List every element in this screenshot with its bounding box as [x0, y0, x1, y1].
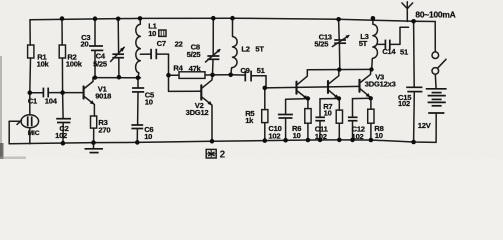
bottom-left scan blob [0, 143, 4, 159]
svg-text:2: 2 [220, 150, 226, 159]
svg-text:C9: C9 [240, 66, 249, 75]
svg-text:9018: 9018 [95, 92, 111, 101]
svg-text:80~100mA: 80~100mA [415, 10, 455, 20]
label: turns glyph for L1 [159, 30, 166, 36]
svg-text:12V: 12V [418, 121, 432, 130]
wire: V1 collector node [93, 77, 141, 79]
node: rail/V2 emitter [210, 139, 215, 144]
node: rail/R6 [306, 138, 311, 143]
svg-text:C14: C14 [382, 47, 396, 56]
node: rail/C15 [411, 140, 416, 145]
capacitor C3 [81, 19, 104, 78]
node: V3 collectors/L3 [369, 67, 373, 71]
node: C9/R5/V3 base [263, 86, 268, 91]
node: C1/R2/C2/V1 base [60, 90, 65, 95]
wire: R1 column lower lead [29, 58, 32, 93]
wire: V2 base drop [169, 75, 202, 91]
svg-text:C7: C7 [157, 39, 166, 48]
wire: ground bottom rail [9, 140, 436, 144]
wire: R1 column upper lead [29, 20, 31, 45]
svg-text:10: 10 [324, 108, 332, 117]
node: collector/C4 [117, 75, 122, 80]
node: collector/L1/C5 [136, 76, 141, 81]
capacitor C14 [378, 27, 409, 56]
transistor V3a [297, 70, 308, 100]
node: C7/R4/V2 base [166, 73, 171, 78]
node: L2/C9 [228, 73, 233, 78]
inductor L1 10 turns [136, 18, 158, 77]
capacitor C7 [140, 39, 182, 59]
svg-text:5/25: 5/25 [187, 50, 202, 59]
wire: C9 down to V3 base bus [265, 76, 267, 88]
node: rail/C13 [336, 17, 341, 22]
resistor R7 [323, 99, 342, 140]
svg-text:47k: 47k [189, 64, 202, 73]
svg-text:51: 51 [400, 47, 409, 56]
node: rail/C10 [283, 138, 288, 143]
paper background [0, 0, 503, 159]
capacitor C10 [268, 99, 293, 140]
variable capacitor C13 [314, 19, 349, 69]
resistor R8 [368, 98, 384, 140]
svg-text:1k: 1k [245, 116, 254, 125]
inductor L2 5T [231, 18, 265, 75]
svg-text:20: 20 [81, 40, 89, 49]
svg-text:5T: 5T [359, 39, 368, 48]
transistor V1 9018 [84, 78, 112, 116]
node: rail/R2 [60, 16, 65, 21]
svg-text:104: 104 [45, 97, 58, 106]
wire: emitter node a [286, 98, 308, 101]
resistor R3 [91, 116, 111, 143]
wire: R4 node to L2 node [213, 74, 231, 76]
wire: emitter node b [320, 98, 339, 100]
node: rail/C4 [116, 17, 121, 22]
node: rail/L1 [138, 16, 143, 21]
switch S [432, 22, 446, 89]
node: rail/C2 [61, 141, 66, 146]
svg-text:3DG12: 3DG12 [186, 108, 209, 117]
node: rail/C6 [135, 140, 140, 145]
transistor V2 3DG12 [186, 75, 213, 141]
svg-text:270: 270 [98, 125, 110, 134]
svg-text:10: 10 [145, 97, 153, 106]
capacitor C6 [131, 125, 153, 143]
node: rail/C3 [93, 16, 98, 21]
svg-text:10: 10 [144, 132, 152, 141]
svg-text:R4: R4 [173, 64, 183, 73]
capacitor C2 [55, 93, 71, 144]
node: rail/C15/antenna [411, 19, 416, 24]
node: rail/R3/ground [91, 140, 96, 145]
node: R1/C1/MIC [28, 90, 33, 95]
transistor V3b [328, 70, 339, 99]
svg-text:L2: L2 [241, 44, 249, 53]
caption: figure 2 [206, 149, 225, 160]
wire: +V supply top rail [30, 18, 435, 21]
svg-text:102: 102 [55, 131, 67, 140]
node: emitter a/R6 [306, 96, 310, 100]
svg-text:100k: 100k [66, 60, 83, 69]
node: rail/R8 [369, 138, 374, 143]
resistor R6 [292, 99, 311, 141]
inductor L3 5T [359, 18, 378, 69]
wire: emitter node c [353, 97, 371, 99]
svg-text:22: 22 [175, 39, 183, 48]
capacitor C5 [132, 78, 155, 125]
transistor V3c [360, 70, 396, 99]
svg-text:5/25: 5/25 [314, 40, 329, 49]
resistor R4 [169, 64, 213, 79]
ground symbol [85, 143, 104, 153]
resistor R5 [245, 88, 268, 141]
node: rail/L3 [371, 16, 376, 21]
capacitor C11 [315, 99, 329, 141]
wire: C7 to R4 node [168, 54, 170, 75]
wire: V3 collector line [307, 68, 371, 70]
svg-text:5/25: 5/25 [93, 60, 108, 69]
wire: R2 column upper lead [61, 19, 63, 45]
node: emitter c/R8 [369, 96, 373, 100]
svg-text:10: 10 [375, 131, 383, 140]
variable capacitor C4 [93, 19, 125, 77]
resistor R1 [28, 45, 34, 58]
wire: V3 base bus [265, 86, 360, 88]
left scan edge smudge [0, 56, 2, 159]
node: rail/C8 [211, 16, 216, 21]
capacitor C15 [398, 21, 422, 142]
svg-text:102: 102 [268, 131, 280, 140]
capacitor C12 [348, 99, 365, 141]
svg-text:51: 51 [257, 66, 266, 75]
node: V3 collectors/C13 [337, 67, 341, 71]
antenna [402, 2, 413, 22]
microphone MIC [9, 93, 40, 144]
node: R4/C8/V2 collector [210, 73, 215, 78]
svg-text:5T: 5T [255, 44, 264, 53]
wire: R2 column lower lead [61, 58, 63, 93]
capacitor C1 [28, 88, 84, 106]
svg-text:10: 10 [148, 29, 156, 38]
capacitor C9 [231, 66, 266, 82]
svg-text:10k: 10k [37, 60, 50, 69]
node: rail/L2 [230, 16, 235, 21]
resistor R2 [59, 45, 65, 58]
battery 12V [418, 89, 447, 143]
variable capacitor C8 [187, 18, 221, 75]
node: collector/C3 [93, 75, 97, 79]
node: rail/R7 [337, 138, 342, 143]
svg-text:MIC: MIC [28, 130, 40, 137]
node: rail/R5 [263, 138, 268, 143]
svg-text:102: 102 [398, 99, 410, 108]
node: emitter b/R7 [337, 96, 341, 100]
svg-text:3DG12x3: 3DG12x3 [365, 80, 396, 89]
svg-text:10: 10 [293, 131, 301, 140]
node: rail/C12 [350, 138, 355, 143]
scan noise overlay [0, 0, 503, 159]
node: rail/C11 [318, 138, 323, 143]
